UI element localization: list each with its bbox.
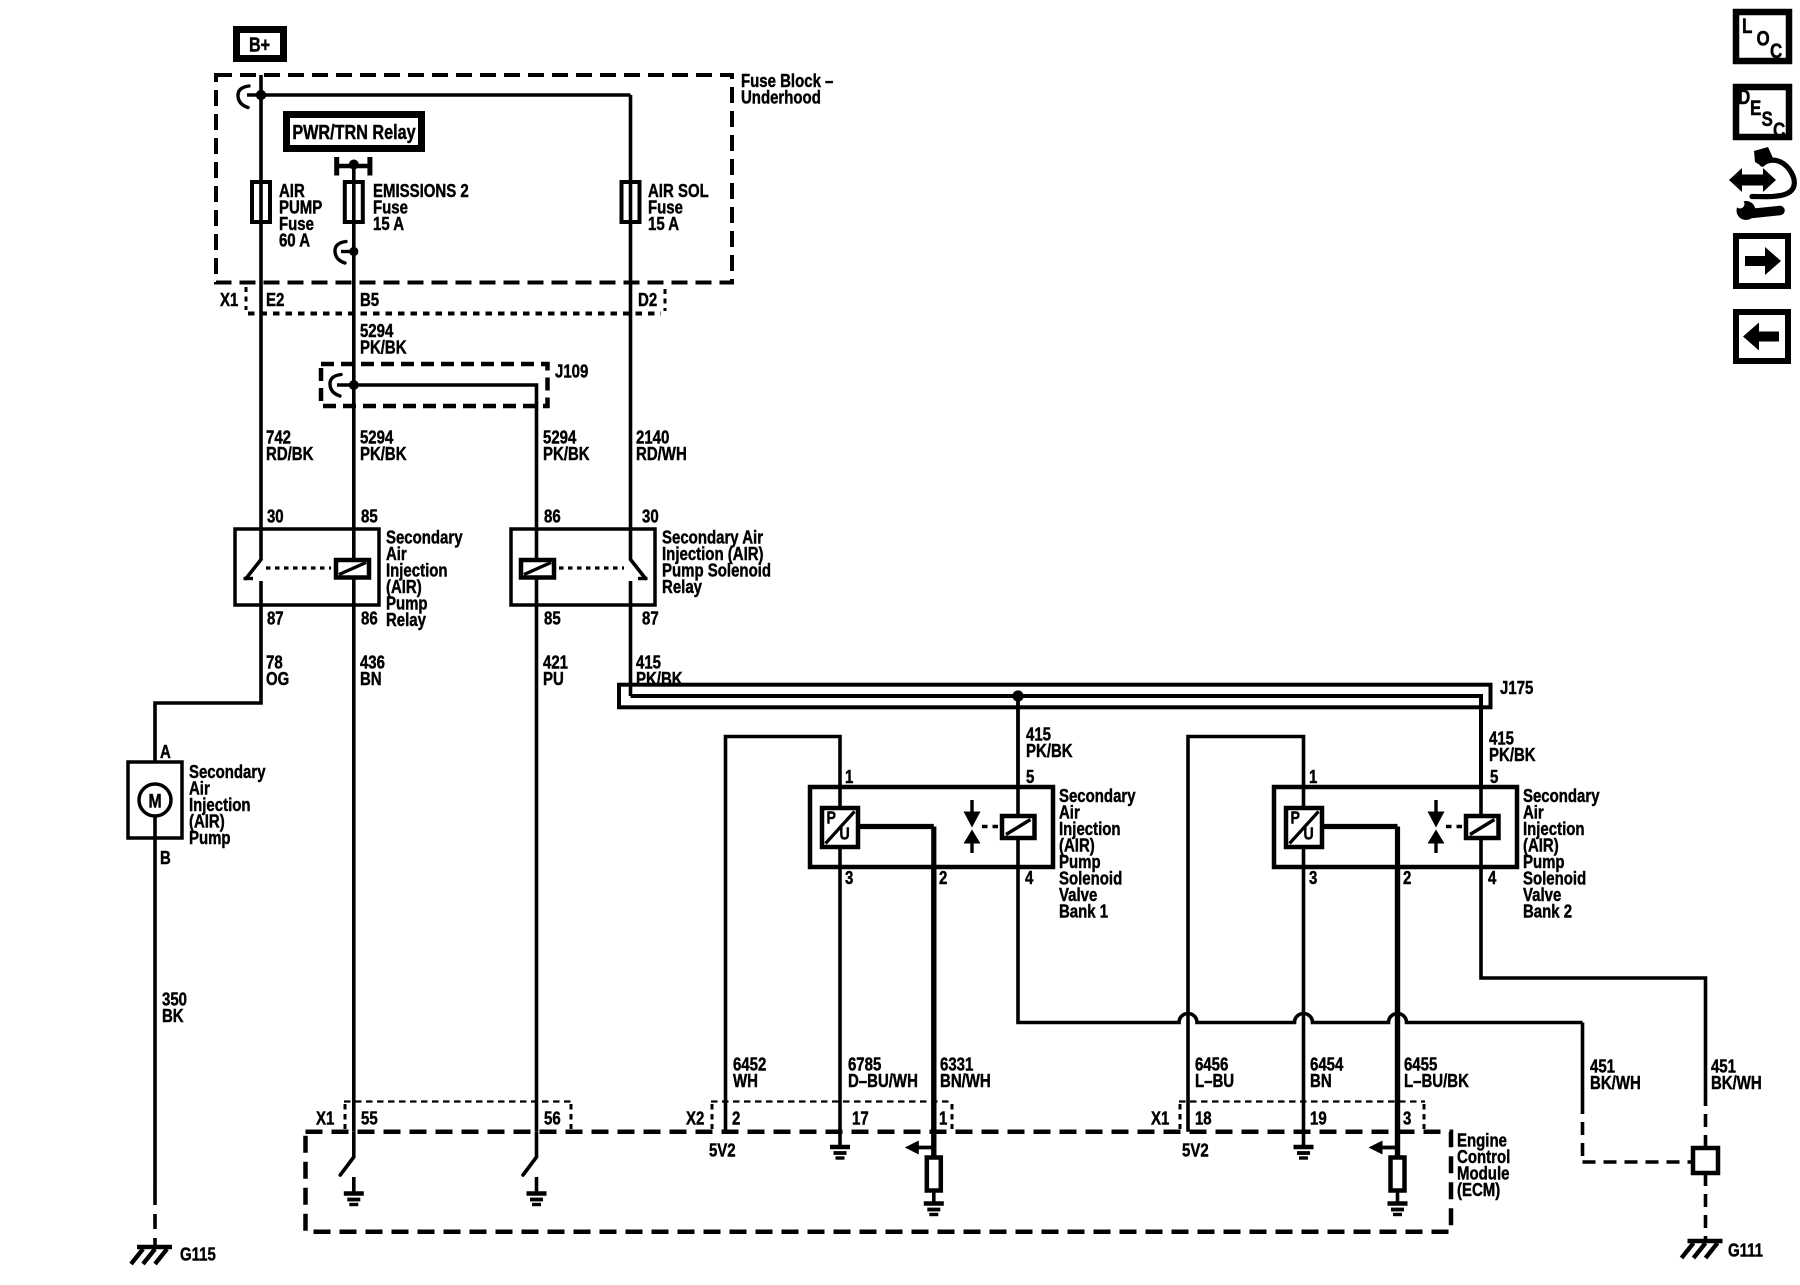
svg-text:30: 30 (642, 506, 659, 527)
svg-text:OG: OG (266, 669, 289, 690)
svg-text:5: 5 (1490, 767, 1498, 788)
svg-text:P: P (827, 809, 837, 828)
svg-text:4: 4 (1025, 868, 1034, 889)
svg-text:X1: X1 (316, 1108, 334, 1129)
svg-text:2: 2 (939, 868, 947, 889)
svg-text:1: 1 (1309, 767, 1317, 788)
svg-text:S: S (1762, 108, 1773, 131)
svg-text:2: 2 (732, 1108, 740, 1129)
svg-text:Underhood: Underhood (741, 87, 821, 108)
svg-text:RD/WH: RD/WH (636, 444, 687, 465)
svg-text:1: 1 (845, 767, 853, 788)
svg-text:X2: X2 (686, 1108, 704, 1129)
svg-text:B+: B+ (249, 34, 270, 56)
svg-text:15 A: 15 A (373, 214, 404, 235)
svg-text:U: U (839, 825, 849, 844)
svg-text:L–BU/BK: L–BU/BK (1404, 1071, 1469, 1092)
svg-text:BN: BN (360, 669, 382, 690)
svg-text:O: O (1756, 28, 1769, 51)
svg-text:3: 3 (1403, 1108, 1411, 1129)
svg-text:2: 2 (1403, 868, 1411, 889)
svg-text:M: M (148, 790, 161, 812)
svg-text:X1: X1 (220, 290, 238, 311)
svg-text:L–BU: L–BU (1195, 1071, 1234, 1092)
svg-text:PK/BK: PK/BK (360, 337, 407, 358)
svg-text:PWR/TRN Relay: PWR/TRN Relay (292, 122, 416, 144)
svg-text:RD/BK: RD/BK (266, 444, 313, 465)
svg-text:86: 86 (544, 506, 561, 527)
svg-text:87: 87 (267, 608, 284, 629)
svg-text:PK/BK: PK/BK (636, 669, 683, 690)
svg-text:4: 4 (1488, 868, 1497, 889)
svg-text:Pump: Pump (189, 828, 231, 849)
svg-text:86: 86 (361, 608, 378, 629)
svg-text:J109: J109 (555, 361, 588, 382)
svg-text:B5: B5 (360, 290, 379, 311)
svg-text:U: U (1304, 825, 1314, 844)
svg-text:60 A: 60 A (279, 230, 310, 251)
svg-text:BK/WH: BK/WH (1711, 1073, 1762, 1094)
svg-text:1: 1 (939, 1108, 947, 1129)
svg-text:D–BU/WH: D–BU/WH (848, 1071, 918, 1092)
svg-text:C: C (1770, 40, 1782, 63)
svg-text:E2: E2 (266, 290, 284, 311)
svg-text:G115: G115 (180, 1244, 216, 1265)
svg-text:30: 30 (267, 506, 284, 527)
svg-text:3: 3 (1309, 868, 1317, 889)
svg-text:PK/BK: PK/BK (1026, 741, 1073, 762)
svg-text:WH: WH (733, 1071, 758, 1092)
svg-text:P: P (1290, 809, 1300, 828)
svg-text:BK: BK (162, 1006, 184, 1027)
svg-text:Bank 1: Bank 1 (1059, 901, 1108, 922)
svg-text:X1: X1 (1151, 1108, 1169, 1129)
svg-text:5V2: 5V2 (1182, 1140, 1209, 1161)
svg-text:Bank 2: Bank 2 (1523, 901, 1572, 922)
svg-text:85: 85 (361, 506, 378, 527)
svg-text:G111: G111 (1728, 1240, 1763, 1261)
svg-text:(ECM): (ECM) (1457, 1180, 1500, 1201)
svg-text:C: C (1773, 119, 1785, 142)
svg-text:BK/WH: BK/WH (1590, 1073, 1641, 1094)
svg-text:L: L (1742, 15, 1753, 38)
svg-text:3: 3 (845, 868, 853, 889)
svg-text:87: 87 (642, 608, 659, 629)
svg-text:BN: BN (1310, 1071, 1332, 1092)
svg-text:A: A (160, 742, 171, 763)
svg-text:85: 85 (544, 608, 561, 629)
svg-text:5: 5 (1026, 767, 1034, 788)
svg-text:BN/WH: BN/WH (940, 1071, 991, 1092)
svg-text:Relay: Relay (386, 610, 427, 631)
svg-text:56: 56 (544, 1108, 561, 1129)
svg-text:17: 17 (852, 1108, 869, 1129)
svg-text:PK/BK: PK/BK (543, 444, 590, 465)
svg-text:D: D (1738, 86, 1750, 109)
svg-text:J175: J175 (1500, 678, 1533, 699)
svg-text:B: B (160, 848, 171, 869)
svg-text:PK/BK: PK/BK (360, 444, 407, 465)
svg-text:D2: D2 (638, 290, 657, 311)
svg-text:E: E (1750, 97, 1761, 120)
svg-text:5V2: 5V2 (709, 1140, 736, 1161)
svg-text:Relay: Relay (662, 577, 703, 598)
svg-text:PU: PU (543, 669, 564, 690)
svg-text:19: 19 (1310, 1108, 1327, 1129)
svg-text:15 A: 15 A (648, 214, 679, 235)
svg-text:55: 55 (361, 1108, 378, 1129)
svg-text:PK/BK: PK/BK (1489, 745, 1536, 766)
svg-text:18: 18 (1195, 1108, 1212, 1129)
